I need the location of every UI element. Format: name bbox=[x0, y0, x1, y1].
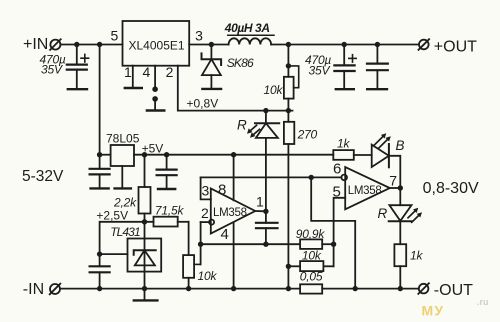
svg-text:0,8-30V: 0,8-30V bbox=[423, 180, 479, 197]
wire input column down to 78L05 bbox=[99, 45, 101, 155]
node bottom cap ref bbox=[97, 286, 102, 291]
svg-text:3: 3 bbox=[195, 27, 203, 43]
svg-text:0,05: 0,05 bbox=[300, 270, 323, 284]
svg-text:90,9k: 90,9k bbox=[296, 227, 326, 241]
IC XL4005E1 bbox=[123, 21, 190, 66]
diode SK86 bbox=[202, 45, 222, 89]
svg-text:8: 8 bbox=[218, 182, 226, 199]
capacitor comp bbox=[256, 211, 278, 244]
resistor 10k sense bbox=[288, 261, 333, 271]
ground pin1 bbox=[125, 87, 142, 89]
wire pin8 bbox=[233, 155, 235, 201]
node fb rail r270 bbox=[286, 108, 291, 113]
resistor 0,05 shunt bbox=[300, 284, 322, 293]
node pin7 bbox=[398, 185, 403, 190]
IC 78L05 bbox=[111, 145, 134, 166]
wire pin2 feedback to +0,8V rail bbox=[178, 66, 293, 111]
node 5V cap top bbox=[164, 152, 169, 157]
svg-text:+0,8V: +0,8V bbox=[187, 97, 219, 111]
wire pin1 out bbox=[255, 210, 266, 212]
svg-text:78L05: 78L05 bbox=[106, 131, 140, 145]
node fb rail led bbox=[263, 108, 268, 113]
node TL431 ref bbox=[97, 251, 102, 256]
svg-text:40µH 3A: 40µH 3A bbox=[224, 21, 270, 35]
node LC junction bbox=[286, 42, 291, 47]
wire pin4 bbox=[154, 66, 156, 88]
svg-text:35V: 35V bbox=[309, 63, 331, 77]
wire pin3 opamp1 bbox=[201, 177, 211, 199]
svg-text:270: 270 bbox=[297, 127, 318, 141]
ground +5V cap bbox=[158, 188, 175, 190]
terminal +IN bbox=[50, 39, 61, 50]
wire bottom rail left bbox=[60, 288, 300, 290]
svg-text:2: 2 bbox=[201, 205, 209, 221]
svg-text:SK86: SK86 bbox=[227, 56, 254, 70]
svg-text:6: 6 bbox=[333, 161, 341, 178]
ground SK86 bbox=[202, 88, 221, 90]
svg-text:2,2k: 2,2k bbox=[113, 196, 137, 210]
resistor 71,5k bbox=[154, 217, 189, 255]
svg-text:МУ: МУ bbox=[422, 303, 445, 319]
trimmer 10k upper bbox=[284, 66, 299, 111]
svg-text:10k: 10k bbox=[198, 269, 218, 283]
wire 1k to LED B bbox=[354, 154, 372, 156]
resistor 90,9k bbox=[300, 239, 334, 249]
wire pin5 opamp2 bbox=[334, 198, 346, 266]
node pin1 bbox=[263, 209, 268, 214]
svg-text:35V: 35V bbox=[41, 62, 63, 76]
svg-text:R: R bbox=[237, 117, 247, 132]
svg-text:+2,5V: +2,5V bbox=[96, 209, 128, 223]
capacitor 470u 35V input bbox=[67, 45, 89, 90]
wire pin1 bbox=[132, 66, 134, 88]
svg-text:10k: 10k bbox=[302, 249, 322, 263]
capacitor 78L05 input bbox=[90, 155, 110, 189]
svg-text:LM358: LM358 bbox=[213, 207, 247, 219]
capacitor output ceramic bbox=[367, 45, 388, 90]
node sense -OUT bbox=[353, 286, 358, 291]
resistor 1k right bbox=[394, 244, 406, 288]
node comp cap fb bbox=[263, 242, 268, 247]
wire pin3 to inductor bbox=[189, 44, 228, 46]
svg-text:1k: 1k bbox=[337, 136, 350, 150]
node TL431 anode bbox=[142, 286, 147, 291]
svg-text:+OUT: +OUT bbox=[434, 38, 477, 55]
IC TL431 bbox=[128, 222, 162, 289]
wire pin4 bbox=[233, 222, 235, 288]
node 2.2k top bbox=[142, 152, 147, 157]
svg-text:R: R bbox=[378, 206, 388, 221]
terminal -OUT bbox=[418, 283, 429, 294]
wire inductor to +OUT bbox=[271, 44, 419, 46]
svg-text:TL431: TL431 bbox=[110, 225, 140, 239]
node pin5 divider bbox=[331, 242, 336, 247]
terminal +OUT bbox=[419, 39, 430, 50]
node sense tap bbox=[309, 175, 314, 180]
svg-text:LM358: LM358 bbox=[348, 185, 382, 197]
resistor 270 bbox=[284, 111, 294, 289]
ground out cap1 bbox=[336, 88, 354, 90]
ground input cap bbox=[68, 88, 87, 90]
svg-text:-IN: -IN bbox=[23, 281, 44, 298]
node pin8 tap bbox=[231, 152, 236, 157]
svg-text:2: 2 bbox=[166, 64, 174, 80]
capacitor +5V bbox=[157, 155, 177, 189]
ground pin4 bbox=[147, 109, 164, 111]
resistor 1k top bbox=[333, 150, 354, 160]
wire fb rail bbox=[201, 243, 301, 245]
ground 78L05 input cap bbox=[91, 187, 109, 189]
svg-text:1k: 1k bbox=[410, 248, 423, 262]
wire pin4 lower bbox=[154, 100, 156, 111]
node pin4 gnd bbox=[231, 286, 236, 291]
wire pin2 opamp1 bbox=[201, 221, 210, 223]
node trimmer top bbox=[286, 63, 291, 68]
svg-text:7: 7 bbox=[389, 172, 397, 188]
pin6 inverting circle bbox=[341, 175, 347, 181]
ground out cap2 bbox=[367, 88, 387, 90]
wire sense rail pin3-pin6 bbox=[201, 176, 342, 178]
svg-text:3: 3 bbox=[202, 183, 210, 199]
svg-text:XL4005E1: XL4005E1 bbox=[129, 39, 185, 53]
svg-text:B: B bbox=[396, 138, 405, 153]
node 10k bottom rail bbox=[186, 286, 191, 291]
LED B bbox=[372, 133, 401, 188]
wire +IN to XL4005 pin5 bbox=[60, 44, 122, 46]
ground 78L05 bbox=[115, 187, 131, 189]
capacitor 470u 35V output bbox=[334, 45, 356, 90]
wire 78L05 input bbox=[100, 154, 111, 156]
svg-text:4: 4 bbox=[143, 64, 151, 80]
wire +2,5V bbox=[100, 222, 154, 254]
svg-text:+IN: +IN bbox=[23, 36, 48, 53]
node 10k sense left bbox=[286, 264, 291, 269]
wire TL431 ref bbox=[100, 253, 128, 255]
capacitor ref bbox=[90, 254, 110, 289]
pin2 inverting circle bbox=[209, 220, 214, 225]
wire +5V rail bbox=[134, 154, 333, 156]
node bottom shunt left bbox=[286, 286, 291, 291]
node fb left bbox=[198, 242, 203, 247]
node out cap1 bbox=[342, 42, 347, 47]
node 1k bottom bbox=[398, 286, 403, 291]
op-amp U1A LM358 bbox=[211, 189, 255, 234]
svg-text:5: 5 bbox=[111, 27, 119, 43]
inductor 40uH 3A bbox=[229, 38, 272, 44]
node 78L05 input bbox=[97, 152, 102, 157]
svg-text:4: 4 bbox=[221, 226, 229, 243]
trimmer 10k lower bbox=[183, 255, 201, 289]
wire to trimmer top bbox=[287, 45, 289, 66]
resistor 2,2k bbox=[139, 155, 151, 222]
node pin4 dot lower bbox=[152, 96, 158, 102]
LED R left bbox=[247, 111, 279, 212]
svg-text:-OUT: -OUT bbox=[434, 282, 473, 299]
wire sense to -OUT bbox=[311, 177, 355, 288]
node out cap2 bbox=[375, 42, 380, 47]
ground TL431 bbox=[134, 299, 158, 301]
wire TL431 gnd stub bbox=[144, 289, 146, 301]
op-amp U1B LM358 bbox=[345, 167, 390, 209]
node input junction 1 bbox=[74, 42, 79, 47]
wire pin2 opamp1 column bbox=[200, 222, 202, 264]
node +2,5V bbox=[142, 219, 147, 224]
node input junction 2 bbox=[97, 42, 102, 47]
node pin4 dot upper bbox=[152, 86, 158, 92]
svg-text:5-32V: 5-32V bbox=[22, 168, 64, 185]
svg-text:71,5k: 71,5k bbox=[155, 203, 185, 217]
wire bottom rail right bbox=[322, 288, 419, 290]
terminal -IN bbox=[50, 284, 61, 295]
svg-text:1: 1 bbox=[124, 64, 132, 80]
LED R right bbox=[389, 188, 422, 244]
svg-text:.ru: .ru bbox=[477, 297, 489, 307]
svg-text:1: 1 bbox=[256, 193, 264, 209]
node diode junction bbox=[209, 42, 214, 47]
wire 78L05 gnd bbox=[121, 166, 123, 188]
wire pin7 out bbox=[390, 187, 401, 189]
svg-text:10k: 10k bbox=[264, 83, 284, 97]
